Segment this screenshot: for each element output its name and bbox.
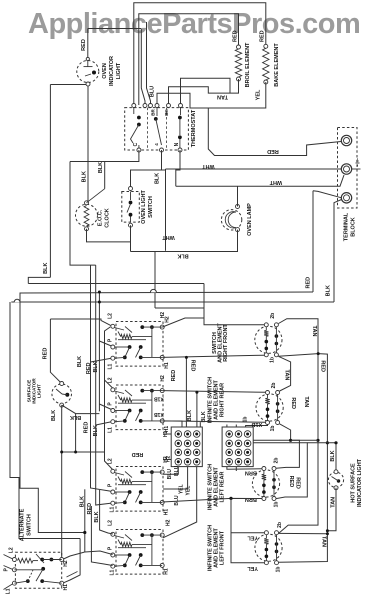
wire vertical feeder L2 chain [105, 327, 111, 380]
svg-text:H2: H2 [164, 316, 170, 323]
svg-text:RED: RED [83, 422, 89, 434]
svg-text:WHT: WHT [202, 163, 215, 169]
wire top loop to bake element [134, 3, 266, 105]
bus B [20, 292, 314, 293]
svg-text:YEL: YEL [247, 565, 258, 571]
svg-text:RED: RED [288, 476, 294, 488]
hot surface indicator light [328, 472, 343, 487]
svg-text:1b: 1b [276, 567, 282, 573]
svg-text:WHT: WHT [162, 234, 175, 240]
wire WHT to terminal 2 [166, 168, 342, 170]
thermostat box [125, 108, 189, 150]
wire H1 box2 to RR element 1b [162, 421, 265, 422]
surface indicator light [52, 384, 72, 404]
svg-text:THERMOSTAT: THERMOSTAT [191, 109, 197, 147]
wire left staircase inner [20, 293, 85, 533]
junction h 452 [62, 451, 105, 453]
connector grid right [222, 427, 253, 467]
svg-text:RED: RED [232, 30, 238, 42]
svg-text:BLK: BLK [94, 511, 100, 522]
svg-text:H2: H2 [63, 560, 69, 567]
wires into right grid top [226, 425, 228, 428]
svg-text:TAN: TAN [321, 536, 327, 547]
svg-text:INDICATOR LIGHT: INDICATOR LIGHT [357, 458, 363, 507]
svg-text:TAN: TAN [217, 93, 228, 99]
svg-text:BLU: BLU [174, 495, 180, 506]
svg-text:BK: BK [164, 109, 169, 116]
svg-text:1b: 1b [269, 357, 275, 363]
wire L2 feeder h3 [50, 319, 111, 326]
crossover hump bus B [150, 289, 156, 292]
wire LF feed [231, 498, 264, 562]
svg-text:INDICATOR: INDICATOR [109, 56, 115, 86]
svg-text:BLK: BLK [98, 162, 104, 173]
svg-text:RED: RED [87, 503, 93, 515]
wire oven lamp top [237, 186, 239, 206]
thermostat contact left [137, 116, 141, 120]
terminal block box [338, 128, 358, 209]
wire box3 H1 to LF junction [162, 498, 262, 502]
wire L1 feeder left [70, 162, 96, 266]
svg-text:LEFT REAR: LEFT REAR [219, 472, 225, 503]
svg-text:P: P [108, 402, 114, 406]
svg-text:YEL: YEL [255, 89, 261, 100]
wire vertical feeder P chain [98, 292, 100, 411]
svg-text:2b: 2b [271, 383, 277, 389]
svg-text:L1: L1 [110, 506, 116, 512]
wires into left grid top [163, 421, 182, 427]
wire RF bottom right to RED vertical [278, 354, 327, 563]
broil element resistor [237, 45, 241, 49]
wire RR bottom right [280, 424, 291, 440]
oven lamp [221, 210, 241, 230]
wire red to oven indicator light [87, 29, 89, 59]
svg-text:RED: RED [81, 39, 87, 51]
svg-text:L1: L1 [110, 569, 116, 575]
wire oven indicator bottom down to clock [87, 86, 89, 203]
svg-text:BLK: BLK [43, 263, 49, 274]
wire blk terminal 3 [334, 200, 342, 303]
svg-text:X1B: X1B [154, 396, 164, 402]
svg-text:4: 4 [154, 143, 159, 146]
wire LF top right to RED vertical [279, 532, 328, 534]
thermostat terminals bottom [137, 148, 141, 152]
wire broil bottom [169, 79, 239, 105]
infinite switch right front [116, 322, 163, 367]
svg-text:L2: L2 [108, 520, 114, 526]
svg-text:TAN: TAN [303, 396, 309, 407]
svg-text:2b: 2b [270, 313, 276, 319]
svg-text:BLK: BLK [51, 410, 57, 421]
svg-text:RED: RED [320, 360, 326, 372]
svg-text:TAN: TAN [330, 497, 336, 508]
E.O.C. clock [76, 204, 98, 226]
terminal 2 [341, 164, 351, 174]
svg-text:2b: 2b [277, 522, 283, 528]
svg-text:L1: L1 [108, 427, 114, 433]
svg-text:BLOCK: BLOCK [350, 217, 356, 237]
svg-text:SWITCH: SWITCH [26, 514, 32, 536]
svg-text:BRN: BRN [245, 496, 257, 502]
svg-text:L2: L2 [108, 313, 114, 319]
element right front [255, 326, 282, 353]
wire right grid exits [253, 440, 299, 468]
svg-text:L1: L1 [6, 588, 12, 594]
wire feeder to alt switch H2 and P box4 [84, 489, 86, 552]
wire oven light switch bottom WHT [130, 225, 132, 251]
wire left grid stubs [163, 433, 171, 435]
thermostat contact mid [154, 117, 158, 121]
svg-text:1b: 1b [242, 417, 248, 423]
svg-text:H1: H1 [164, 568, 170, 575]
svg-text:C: C [133, 142, 139, 146]
bake element resistor [264, 44, 268, 48]
alternate switch feed stubs [4, 555, 13, 559]
svg-text:RED: RED [190, 360, 196, 372]
oven light switch box [122, 192, 140, 223]
wire thermostat B3 down [176, 150, 180, 186]
bus C [11, 301, 334, 303]
wire feeder from surface light down [75, 414, 77, 452]
alternate switch internals [18, 558, 33, 563]
element left front [255, 534, 282, 561]
wire RF bottom right to RR top right TAN [278, 356, 290, 391]
svg-text:BLK: BLK [325, 285, 331, 296]
wire H2 box2 to RR element [162, 391, 265, 393]
svg-text:BLK: BLK [81, 171, 87, 182]
element left rear [252, 470, 279, 497]
ground symbol [352, 168, 361, 170]
svg-text:RED: RED [267, 148, 279, 154]
terminal 1 [341, 135, 351, 145]
svg-text:2b: 2b [274, 458, 280, 464]
thermostat terminals top [132, 104, 136, 108]
wire thermostat 4th [147, 22, 151, 105]
svg-text:BLK: BLK [77, 356, 83, 367]
element right rear [256, 394, 283, 421]
svg-text:H1: H1 [164, 362, 170, 369]
wires below left grid [163, 467, 178, 475]
svg-text:TAN: TAN [311, 326, 317, 337]
wire from oven indicator light bottom left [50, 84, 86, 86]
svg-text:RED: RED [295, 477, 301, 489]
wire bus D to element RF 2b [204, 308, 264, 325]
svg-text:ALTERNATE: ALTERNATE [19, 508, 25, 541]
wire feeders box3 [105, 380, 113, 470]
infinite switch left rear [116, 467, 163, 512]
svg-text:HOT SURFACE: HOT SURFACE [350, 463, 356, 503]
svg-text:AppliancePartsPros.com: AppliancePartsPros.com [28, 8, 360, 40]
svg-text:TERMINAL: TERMINAL [343, 212, 349, 241]
svg-text:H1: H1 [63, 584, 69, 591]
svg-text:L2: L2 [9, 547, 15, 553]
arrow pointer [67, 572, 78, 578]
svg-text:N: N [174, 142, 180, 146]
svg-text:X1B: X1B [154, 411, 164, 417]
wires below thermostat [70, 150, 139, 162]
svg-text:BLK: BLK [330, 450, 336, 461]
svg-text:1b: 1b [270, 426, 276, 432]
wire thermostat B2 down [131, 150, 162, 189]
svg-text:H1: H1 [164, 509, 170, 516]
bus D [155, 307, 204, 309]
svg-text:BROIL ELEMENT: BROIL ELEMENT [245, 42, 251, 87]
wire feeders box1 P L1 [99, 341, 112, 347]
svg-text:BLK: BLK [177, 253, 188, 259]
svg-text:BLK: BLK [70, 414, 81, 420]
svg-text:LIGHT: LIGHT [37, 384, 42, 398]
wire oven light to thermostat [141, 29, 145, 106]
svg-text:BLK: BLK [80, 496, 86, 507]
wire clock bottom [87, 229, 131, 242]
bus A [28, 283, 204, 285]
svg-text:OVEN LAMP: OVEN LAMP [247, 203, 253, 236]
svg-text:X1B: X1B [252, 421, 263, 427]
svg-text:1b: 1b [274, 502, 280, 508]
svg-text:SWITCH: SWITCH [148, 196, 154, 218]
svg-text:RED: RED [306, 277, 312, 289]
svg-text:BRN: BRN [245, 469, 257, 475]
terminal 3 [341, 193, 351, 203]
svg-text:P: P [108, 483, 114, 487]
wire feeder to alt switch H1 [64, 539, 81, 583]
svg-text:CLOCK: CLOCK [104, 208, 110, 228]
svg-text:LEFT FRONT: LEFT FRONT [219, 530, 225, 565]
svg-text:WHT: WHT [269, 179, 282, 185]
alternate switch box [15, 552, 61, 588]
svg-text:LIGHT: LIGHT [116, 62, 122, 79]
svg-text:RED: RED [290, 397, 296, 409]
wire element RR 1b to grid [246, 425, 268, 428]
wire LR element top left from grid [227, 467, 262, 470]
svg-text:RED: RED [43, 348, 49, 360]
infinite switch left front [116, 530, 163, 575]
svg-text:P: P [108, 546, 114, 550]
svg-text:YEL: YEL [186, 486, 192, 496]
wire top loop to broil element [139, 14, 239, 105]
svg-text:P: P [108, 338, 114, 342]
svg-text:BLU: BLU [149, 86, 155, 97]
svg-text:L1: L1 [108, 363, 114, 369]
oven indicator light [77, 61, 99, 83]
svg-text:TAN: TAN [284, 369, 290, 380]
wire bake bottom to terminal block [208, 82, 341, 156]
svg-text:OVEN LIGHT: OVEN LIGHT [141, 190, 147, 224]
svg-text:OVEN: OVEN [102, 63, 108, 79]
svg-text:BLK: BLK [187, 410, 193, 421]
svg-text:BLK: BLK [201, 411, 207, 422]
svg-text:H2: H2 [160, 375, 166, 382]
svg-text:RED: RED [259, 30, 265, 42]
svg-text:H2: H2 [165, 519, 171, 526]
wire hot surface light top BLK [335, 443, 337, 472]
wire feeders box4 left [91, 506, 112, 566]
infinite switch right rear [116, 385, 163, 430]
wire hot surface light bottom TAN [327, 488, 336, 531]
wire red surface light [50, 319, 61, 384]
wire feeders box2 [105, 380, 113, 388]
thermostat contact right [178, 116, 182, 120]
wire oven lamp bottom BLK [131, 230, 238, 252]
svg-text:L2: L2 [108, 377, 114, 383]
svg-text:RIGHT REAR: RIGHT REAR [219, 383, 225, 417]
svg-text:BAKE ELEMENT: BAKE ELEMENT [274, 43, 280, 87]
wire element RF 2b right to TAN vertical [279, 319, 319, 534]
wire red terminal 3 [312, 191, 314, 292]
wire WHT oven lamp to terminal [176, 175, 344, 186]
svg-text:E.O.C.: E.O.C. [97, 209, 103, 226]
svg-text:RED: RED [86, 362, 92, 374]
wire thermostat right top [181, 78, 231, 105]
crossover hump bus C [14, 299, 20, 302]
svg-text:YEL: YEL [247, 535, 258, 541]
connector grid left [171, 427, 202, 467]
wire H1 box1 to element RF 1b [162, 355, 264, 357]
wire surface light bottom [61, 405, 63, 557]
svg-text:L2: L2 [108, 458, 114, 464]
svg-text:RED: RED [171, 370, 177, 382]
svg-text:RED: RED [132, 451, 144, 457]
svg-text:BR: BR [151, 109, 156, 116]
wire H2 box1 to bus [162, 318, 204, 327]
wire blu to thermostat [157, 93, 208, 108]
svg-text:BLK: BLK [154, 173, 160, 184]
wire left staircase outer [10, 302, 80, 539]
